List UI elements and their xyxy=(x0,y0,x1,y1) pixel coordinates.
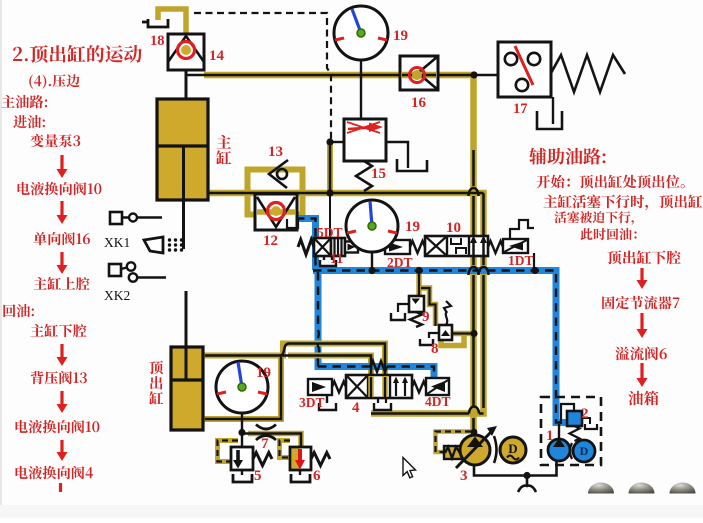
svg-text:16: 16 xyxy=(411,95,427,111)
svg-text:8: 8 xyxy=(431,341,439,357)
svg-text:2: 2 xyxy=(581,406,589,422)
svg-text:19: 19 xyxy=(405,219,420,235)
svg-text:19: 19 xyxy=(256,365,271,381)
svg-text:9: 9 xyxy=(422,309,430,325)
svg-text:19: 19 xyxy=(393,28,408,44)
svg-text:14: 14 xyxy=(209,48,225,64)
svg-text:1DT: 1DT xyxy=(508,253,534,268)
svg-text:5DT: 5DT xyxy=(317,225,343,240)
svg-text:3DT: 3DT xyxy=(299,395,325,410)
svg-text:4: 4 xyxy=(352,400,360,416)
svg-text:18: 18 xyxy=(150,33,165,49)
svg-text:7: 7 xyxy=(261,436,269,452)
svg-text:12: 12 xyxy=(263,233,278,249)
svg-text:11: 11 xyxy=(330,252,343,267)
svg-text:6: 6 xyxy=(313,468,321,484)
svg-text:2DT: 2DT xyxy=(387,255,413,270)
svg-text:10: 10 xyxy=(446,220,461,236)
svg-text:17: 17 xyxy=(513,101,528,117)
svg-text:15: 15 xyxy=(371,166,386,182)
svg-text:1: 1 xyxy=(546,428,554,444)
svg-text:XK1: XK1 xyxy=(104,235,130,250)
svg-text:4DT: 4DT xyxy=(425,394,451,409)
svg-text:XK2: XK2 xyxy=(104,288,130,303)
svg-text:5: 5 xyxy=(254,468,262,484)
svg-text:D: D xyxy=(508,441,517,456)
svg-text:3: 3 xyxy=(460,468,468,484)
svg-text:D: D xyxy=(580,444,589,458)
svg-text:13: 13 xyxy=(268,144,283,160)
